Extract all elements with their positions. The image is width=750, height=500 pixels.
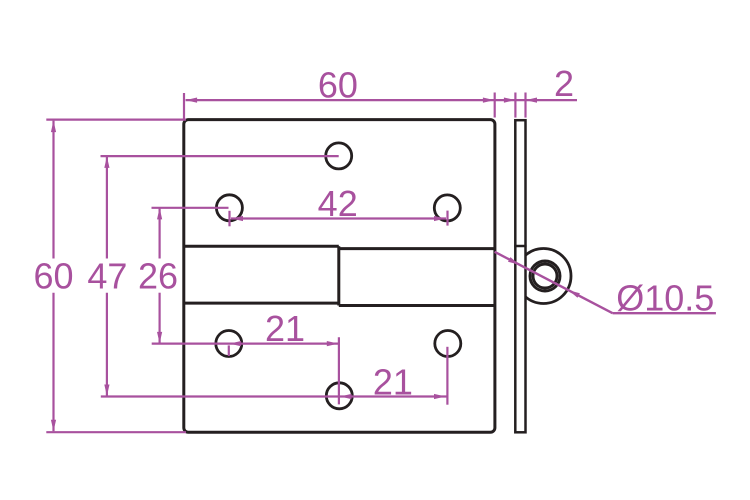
svg-text:42: 42 (318, 183, 358, 224)
ext tick plate left top (183, 93, 185, 119)
arrow 2 left (outside) (504, 98, 516, 103)
arrow 42 left (232, 216, 244, 221)
ext tick bar left top (514, 93, 516, 118)
dim 47 line upper (106, 156, 108, 258)
svg-text:2: 2 (554, 63, 574, 104)
arrow 21a left (230, 341, 242, 346)
ext tick below lower-left hole (228, 345, 230, 356)
arrow 21b left (340, 394, 352, 399)
hole lower-right (435, 331, 461, 357)
svg-text:21: 21 (265, 308, 305, 349)
connector to top-center hole (101, 155, 339, 157)
arrow 60-top left (186, 98, 198, 103)
dim 21b line through bottom-center hole (101, 395, 447, 397)
arrow 21a right (327, 341, 339, 346)
ext line plate bottom-left corner (46, 431, 186, 433)
slot bottom-right edge (339, 304, 495, 307)
arrow 2 right (outside) (526, 98, 538, 103)
svg-text:21: 21 (373, 362, 413, 403)
svg-text:47: 47 (87, 256, 127, 297)
ext tick below upper-left hole (228, 211, 230, 227)
dim 60 top line (186, 99, 577, 101)
slot vertical step (337, 246, 340, 305)
dim 26 line lower (159, 293, 161, 344)
ext tick 21a right end (338, 337, 340, 404)
svg-text:26: 26 (138, 256, 178, 297)
dim 47 line lower (106, 293, 108, 396)
ext tick below upper-right hole (446, 211, 448, 226)
arrow 60-top right (483, 98, 495, 103)
hinge leaf side view bar (515, 120, 525, 432)
dim 21a line through lower-left hole (152, 343, 339, 345)
arrow 47 down (104, 385, 109, 397)
arrow 47 up (104, 156, 109, 168)
leader underline Ø10.5 (613, 312, 716, 314)
arrow 42 right (434, 216, 446, 221)
bar knuckle cut tick (514, 245, 526, 248)
dim 60 left line upper (52, 121, 54, 259)
arrow 26 down (157, 332, 162, 344)
knuckle ring outer (530, 261, 560, 291)
dim 42 line (231, 217, 446, 219)
slot bottom-left edge (184, 302, 339, 305)
ext tick plate right top (494, 93, 496, 118)
hole bottom-center (326, 383, 352, 409)
arrow leader lower (points up-left at circle edge) (569, 290, 580, 298)
ext tick below lower-right hole (446, 347, 448, 405)
leader diagonal Ø10.5 (495, 252, 613, 313)
slot top-left edge (184, 245, 339, 248)
hole lower-left (216, 331, 242, 357)
knuckle outer circle (516, 249, 571, 304)
arrow leader upper (points down-right at circle edge) (508, 257, 519, 265)
connector to upper-left hole (152, 207, 229, 209)
dim 60 left line lower (52, 293, 54, 432)
dim 26 line upper (159, 208, 161, 259)
hole top-center (326, 143, 352, 169)
arrow 60-left up (51, 121, 56, 133)
ext line plate top-left corner (46, 118, 186, 120)
svg-text:60: 60 (33, 256, 73, 297)
hole upper-right (434, 195, 460, 221)
hole upper-left (216, 195, 242, 221)
hinge leaf front plate (184, 120, 495, 433)
ext tick bar right top (524, 93, 526, 118)
slot top-right edge (339, 247, 495, 250)
arrow 21b right (434, 394, 446, 399)
svg-text:60: 60 (318, 64, 358, 105)
svg-text:Ø10.5: Ø10.5 (616, 278, 714, 319)
arrow 60-left down (51, 420, 56, 432)
knuckle ring inner (533, 264, 557, 288)
arrow 26 up (157, 208, 162, 220)
